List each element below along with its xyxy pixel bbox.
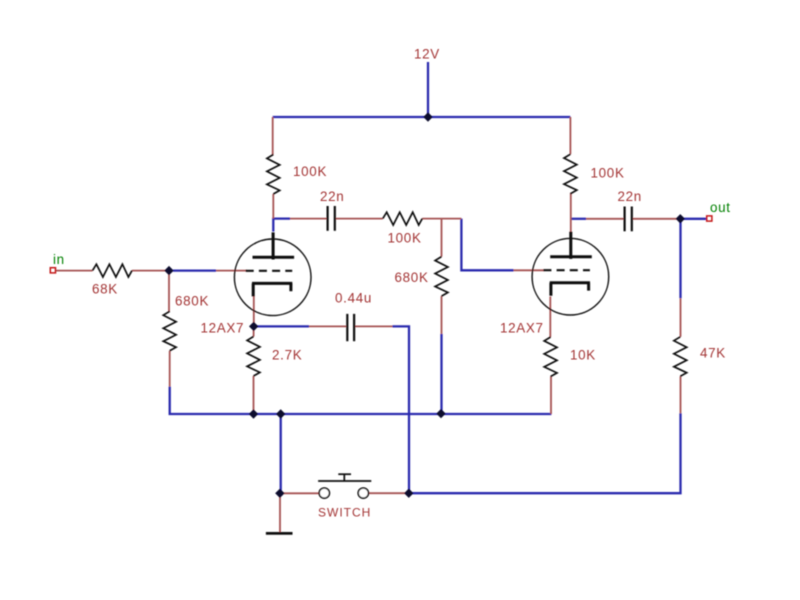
svg-text:2.7K: 2.7K (272, 348, 302, 363)
svg-text:100K: 100K (388, 231, 422, 246)
svg-text:12AX7: 12AX7 (201, 321, 245, 336)
svg-text:in: in (53, 252, 65, 267)
svg-text:100K: 100K (591, 166, 625, 181)
svg-text:12V: 12V (414, 47, 440, 62)
svg-text:100K: 100K (293, 164, 327, 179)
svg-text:12AX7: 12AX7 (500, 321, 544, 336)
svg-text:out: out (710, 200, 731, 215)
svg-text:SWITCH: SWITCH (318, 506, 371, 520)
svg-text:680K: 680K (175, 294, 209, 309)
svg-text:22n: 22n (320, 189, 344, 204)
svg-text:680K: 680K (395, 270, 429, 285)
svg-text:10K: 10K (570, 348, 596, 363)
svg-text:68K: 68K (92, 282, 118, 297)
svg-text:0.44u: 0.44u (335, 291, 372, 306)
svg-text:47K: 47K (700, 346, 726, 361)
svg-text:22n: 22n (618, 189, 642, 204)
